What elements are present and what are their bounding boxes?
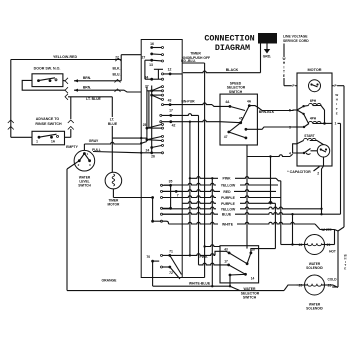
svg-text:42: 42 [172, 124, 176, 128]
wire purple1 to hot solenoid [280, 181, 282, 245]
svg-text:W: W [335, 93, 338, 97]
timer internal vertical [152, 198, 154, 222]
svg-text:16: 16 [150, 42, 154, 46]
motor start contact [297, 152, 304, 154]
svg-text:HOT: HOT [329, 249, 336, 253]
svg-text:EMPTY: EMPTY [66, 145, 78, 149]
motor winding junction to terminal 1 [313, 105, 316, 107]
svg-text:* CAPACITOR: * CAPACITOR [287, 170, 311, 174]
wire cold solenoid 20 stub [297, 284, 305, 286]
timer terminal wire [161, 207, 163, 209]
motor protector [309, 80, 321, 92]
connector BRN upper [65, 78, 68, 84]
svg-text:SERVICE CORD: SERVICE CORD [283, 39, 309, 43]
timer terminal wire white [161, 220, 163, 222]
svg-text:DIAGRAM: DIAGRAM [215, 43, 250, 53]
motor jumper bracket terminal 4 [293, 144, 297, 153]
speed selector blades [230, 106, 245, 110]
svg-text:2: 2 [317, 171, 319, 175]
svg-text:PURPLE: PURPLE [221, 196, 235, 200]
wire red [163, 190, 276, 192]
terminal block line voltage service cord [258, 33, 277, 44]
svg-text:YELLOW: YELLOW [221, 183, 236, 187]
svg-text:START: START [304, 134, 314, 138]
svg-text:BRN.: BRN. [83, 76, 91, 80]
wire white bus right edge [343, 86, 345, 227]
wire lt blue run [68, 96, 112, 98]
wire purple 1 [163, 196, 281, 198]
svg-text:RINSE SWITCH: RINSE SWITCH [35, 122, 62, 126]
wire timer motor to timer box [112, 189, 114, 198]
wire orange [67, 290, 284, 292]
timer edge junctions [140, 137, 142, 139]
svg-text:27: 27 [115, 56, 119, 60]
svg-text:I: I [336, 102, 337, 106]
connector LT BLUE [65, 94, 68, 100]
svg-text:GRD.: GRD. [263, 55, 272, 59]
svg-text:WHITE-BLUE: WHITE-BLUE [189, 282, 211, 286]
svg-text:BRN.: BRN. [83, 85, 91, 89]
wire white-blue from contact 70 [152, 261, 154, 286]
svg-text:ADVANCE TO: ADVANCE TO [36, 117, 60, 121]
svg-text:1: 1 [335, 122, 337, 126]
svg-text:7: 7 [177, 193, 179, 197]
wire pink from timer 71 to water selector 43 [170, 254, 215, 256]
svg-text:6PH: 6PH [310, 99, 317, 103]
water solenoid cold coil [305, 275, 325, 295]
svg-text:RED: RED [223, 190, 231, 194]
label lt blue vertical [104, 117, 121, 126]
timer terminal wire [161, 213, 163, 215]
wire purple 2 [182, 202, 275, 204]
svg-text:4A: 4A [247, 99, 252, 103]
wire hot solenoid 22 stub [297, 244, 305, 246]
wire cold solenoid 23 to white bus [325, 284, 334, 286]
svg-text:PINK: PINK [199, 255, 208, 259]
connector chevrons rinse [68, 120, 74, 123]
timer internal bus wires [146, 87, 148, 140]
wire water level 2 to orange [67, 161, 79, 169]
motor terminal 3 [288, 126, 291, 130]
svg-text:E: E [336, 111, 338, 115]
wire white-blue [153, 285, 230, 287]
svg-text:SWITCH: SWITCH [78, 184, 91, 188]
svg-text:BLU.: BLU. [113, 72, 121, 76]
svg-text:12: 12 [168, 68, 172, 72]
svg-text:17: 17 [169, 109, 173, 113]
svg-text:SWITCH: SWITCH [229, 90, 243, 94]
wire blue [163, 213, 341, 215]
svg-text:37: 37 [145, 85, 149, 89]
connector chevrons left [8, 120, 14, 123]
svg-text:26: 26 [151, 154, 155, 158]
wire timer 42 to speed selector [182, 120, 220, 122]
water solenoid hot coil [305, 235, 325, 255]
svg-text:25: 25 [143, 123, 147, 127]
wire water selector 18 right [251, 249, 276, 253]
svg-text:RD.-BLU.: RD.-BLU. [181, 59, 196, 63]
motor M1 box [297, 73, 332, 166]
svg-text:SOLENOID: SOLENOID [306, 307, 323, 311]
timer motor [105, 172, 122, 189]
wire BLACK from service cord to timer 12 [260, 44, 262, 73]
svg-text:H: H [336, 98, 338, 102]
svg-text:34: 34 [145, 75, 149, 79]
svg-text:WHITE: WHITE [222, 223, 234, 227]
svg-text:LT. BLUE: LT. BLUE [86, 97, 101, 101]
wire timer 17 to water selector 17 [198, 115, 200, 265]
wire along timer bottom [182, 277, 204, 279]
svg-text:14: 14 [251, 276, 255, 280]
svg-text:BLUE: BLUE [108, 122, 118, 126]
svg-text:E: E [344, 266, 346, 270]
timer box knob-push off [141, 40, 182, 278]
svg-text:13: 13 [149, 63, 153, 67]
svg-text:YELLOW: YELLOW [221, 207, 236, 211]
wire yellow [164, 183, 278, 185]
wire pink drop [189, 122, 191, 256]
svg-text:E: E [283, 74, 285, 78]
svg-text:1A: 1A [51, 140, 56, 144]
motor speed contact terminal 5 [288, 109, 291, 113]
wire lt blue branch into timer [112, 137, 141, 139]
svg-text:70: 70 [146, 255, 150, 259]
wire white to solenoids [169, 222, 316, 224]
svg-text:COLD: COLD [327, 277, 337, 281]
svg-text:24: 24 [146, 148, 150, 152]
svg-text:MOTOR: MOTOR [307, 68, 321, 72]
wire motor terminal 1 down right side [338, 122, 341, 124]
svg-text:PINK: PINK [222, 177, 231, 181]
svg-text:4A: 4A [225, 100, 230, 104]
ground symbol GRD. [266, 44, 268, 50]
svg-text:PURPLE: PURPLE [221, 202, 235, 206]
svg-text:SOLENOID: SOLENOID [306, 266, 323, 270]
svg-text:43: 43 [168, 98, 172, 102]
svg-text:72: 72 [169, 271, 173, 275]
wire door switch right [63, 79, 65, 81]
svg-text:DOOR SW. N.O.: DOOR SW. N.O. [34, 67, 61, 71]
water selector blades [229, 253, 247, 264]
motor start switch [317, 145, 329, 157]
connector BRN lower [65, 87, 68, 93]
svg-text:BLACK: BLACK [226, 68, 239, 72]
wire motor 4 from speed selector drop [247, 155, 290, 157]
svg-text:BLK.: BLK. [113, 67, 121, 71]
svg-text:17: 17 [224, 260, 228, 264]
svg-text:BLUE: BLUE [222, 213, 232, 217]
svg-text:4PH: 4PH [310, 117, 317, 121]
timer terminal 7 [161, 190, 163, 192]
wire drop to white-blue [211, 178, 213, 286]
wire capacitor terminal 2 [323, 157, 325, 166]
svg-text:T: T [336, 107, 338, 111]
timer contact [150, 53, 153, 56]
svg-text:BN-PUR: BN-PUR [181, 100, 195, 104]
wire WHITE from service cord to motor protector [283, 44, 285, 86]
wire door switch left loop [22, 80, 65, 90]
timer contact [146, 138, 149, 141]
svg-text:YELLOW-RED: YELLOW-RED [53, 55, 77, 59]
wire pink [190, 177, 276, 179]
svg-text:ORANGE: ORANGE [102, 278, 118, 282]
timer terminal wire [161, 197, 163, 199]
water selector switch [220, 246, 259, 283]
wire hot solenoid 21 to white bus [325, 244, 335, 246]
svg-text:GRAY: GRAY [89, 139, 99, 143]
svg-text:SWITCH: SWITCH [243, 296, 257, 300]
svg-text:47: 47 [224, 135, 228, 139]
wire speed selector 47 down [246, 145, 248, 249]
svg-text:35: 35 [169, 179, 173, 183]
motor start winding to switch [310, 141, 324, 145]
wire full to timer [93, 152, 141, 153]
svg-text:1: 1 [36, 140, 38, 144]
svg-text:MOTOR: MOTOR [107, 203, 120, 207]
svg-text:71: 71 [169, 249, 173, 253]
svg-text:27: 27 [142, 56, 146, 60]
wire water selector 14 drop [229, 275, 231, 286]
svg-text:4: 4 [289, 151, 291, 155]
wire yellow 2 [163, 207, 322, 209]
